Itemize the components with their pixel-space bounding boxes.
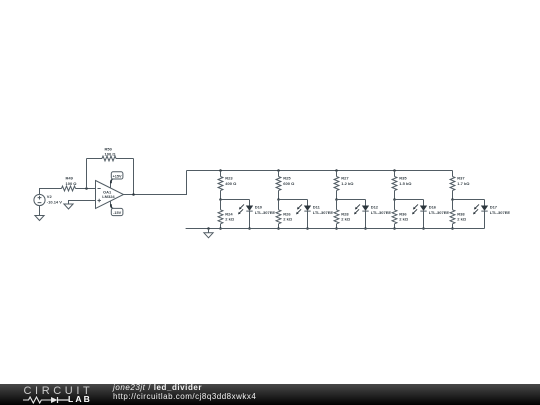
node mid column 2 (277, 198, 280, 201)
wire feedback top left (87, 158, 103, 160)
svg-text:400 Ω: 400 Ω (225, 181, 237, 186)
node bottom rail LED D11 (306, 227, 309, 230)
svg-text:600 Ω: 600 Ω (283, 181, 295, 186)
svg-text:D16: D16 (429, 205, 437, 210)
node bottom rail column 1 (219, 227, 222, 230)
wire mid node to LED D17 (453, 199, 485, 201)
svg-text:2 kΩ: 2 kΩ (457, 217, 467, 222)
svg-text:D12: D12 (371, 205, 379, 210)
resistor R28 2 kΩ (334, 200, 351, 229)
LED D12 LTL-307EE (354, 200, 391, 229)
svg-text:R27: R27 (341, 176, 349, 181)
wire top rail (187, 170, 453, 172)
svg-text:R23: R23 (225, 176, 233, 181)
svg-text:2 kΩ: 2 kΩ (225, 217, 235, 222)
LED D17 LTL-307EE (473, 200, 510, 229)
resistor R23 400 Ω (218, 171, 237, 200)
svg-text:R38: R38 (457, 211, 465, 216)
wire feedback left vertical (86, 159, 88, 189)
ground below V2 (35, 216, 44, 221)
resistor R24 2 kΩ (218, 200, 235, 229)
node bottom rail ground (207, 227, 210, 230)
wire mid node to LED D11 (279, 199, 308, 201)
node output to feedback (132, 193, 135, 196)
svg-text:LTL-307EE: LTL-307EE (371, 210, 392, 215)
node bottom rail column 2 (277, 227, 280, 230)
resistor R50 100 Ohm feedback (102, 146, 116, 161)
power flag +15V (110, 172, 123, 188)
wire op-amp output (124, 171, 187, 195)
LED D10 LTL-307EE (238, 200, 275, 229)
wire V2 to R49 (40, 189, 62, 195)
resistor R35 1.5 kΩ (392, 171, 412, 200)
LED D16 LTL-307EE (412, 200, 449, 229)
node feedback tap (85, 187, 88, 190)
CircuitLab logo squiggle (23, 396, 69, 404)
svg-text:-10.14 V: -10.14 V (47, 200, 62, 205)
node mid column 1 (219, 198, 222, 201)
svg-text:LM324: LM324 (102, 194, 115, 199)
node top rail column 5 (0, 0, 1, 1)
svg-text:V2: V2 (47, 194, 53, 199)
CircuitLab logo text (24, 386, 94, 397)
node bottom rail LED D16 (422, 227, 425, 230)
node top rail column 4 (393, 169, 396, 172)
svg-text:R28: R28 (341, 211, 349, 216)
svg-text:R50: R50 (105, 146, 113, 151)
power flag -15V (110, 201, 123, 215)
svg-text:+15V: +15V (113, 174, 122, 178)
svg-text:R49: R49 (66, 176, 74, 181)
svg-text:1.2 kΩ: 1.2 kΩ (341, 181, 354, 186)
svg-text:R37: R37 (457, 176, 465, 181)
node top rail column 2 (277, 169, 280, 172)
wire R49 to op-amp inverting input (76, 188, 96, 190)
svg-text:1.7 kΩ: 1.7 kΩ (457, 181, 470, 186)
svg-text:R26: R26 (283, 211, 291, 216)
svg-text:R24: R24 (225, 211, 233, 216)
node bottom rail column 4 (393, 227, 396, 230)
svg-text:D10: D10 (255, 205, 263, 210)
svg-text:1.5 kΩ: 1.5 kΩ (399, 181, 412, 186)
svg-text:2 kΩ: 2 kΩ (283, 217, 293, 222)
resistor R27 1.2 kΩ (334, 171, 354, 200)
node bottom rail column 3 (335, 227, 338, 230)
svg-text:D11: D11 (313, 205, 321, 210)
node bottom rail LED D10 (248, 227, 251, 230)
svg-text:R35: R35 (399, 176, 407, 181)
svg-text:LTL-307EE: LTL-307EE (313, 210, 334, 215)
resistor R25 600 Ω (276, 171, 295, 200)
svg-text:LTL-307EE: LTL-307EE (490, 210, 511, 215)
resistor R38 2 kΩ (450, 200, 467, 229)
node top rail column 1 (219, 169, 222, 172)
wire V2 bottom lead (39, 206, 41, 216)
svg-text:LTL-307EE: LTL-307EE (429, 210, 450, 215)
node mid column 5 (451, 198, 454, 201)
wire bottom rail (186, 228, 485, 230)
svg-text:100 Ω: 100 Ω (105, 152, 117, 157)
wire feedback top right (116, 158, 134, 160)
ground bottom rail (204, 229, 213, 238)
resistor R49 100 Ohm (62, 176, 78, 191)
node top rail column 3 (335, 169, 338, 172)
svg-text:-15V: -15V (113, 211, 121, 215)
ground at non-inverting input (64, 201, 96, 210)
op-amp OA1 LM324 (96, 181, 124, 209)
node bottom rail column 5 (451, 227, 454, 230)
node mid column 4 (393, 198, 396, 201)
wire feedback right vertical (133, 159, 135, 195)
svg-text:2 kΩ: 2 kΩ (399, 217, 409, 222)
svg-text:R36: R36 (399, 211, 407, 216)
wire mid node to LED D12 (337, 199, 366, 201)
svg-text:LTL-307EE: LTL-307EE (255, 210, 276, 215)
svg-text:D17: D17 (490, 205, 498, 210)
wire mid node to LED D10 (221, 199, 250, 201)
svg-text:100 Ω: 100 Ω (66, 181, 78, 186)
node bottom rail LED D17 (0, 0, 1, 1)
svg-text:2 kΩ: 2 kΩ (341, 217, 351, 222)
LED D11 LTL-307EE (296, 200, 333, 229)
wire mid node to LED D16 (395, 199, 424, 201)
resistor R36 2 kΩ (392, 200, 409, 229)
node mid column 3 (335, 198, 338, 201)
svg-text:R25: R25 (283, 176, 291, 181)
resistor R37 1.7 kΩ (450, 171, 470, 200)
resistor R26 2 kΩ (276, 200, 293, 229)
voltage source V2 (34, 194, 62, 205)
node bottom rail LED D12 (364, 227, 367, 230)
footer bar (0, 384, 540, 405)
